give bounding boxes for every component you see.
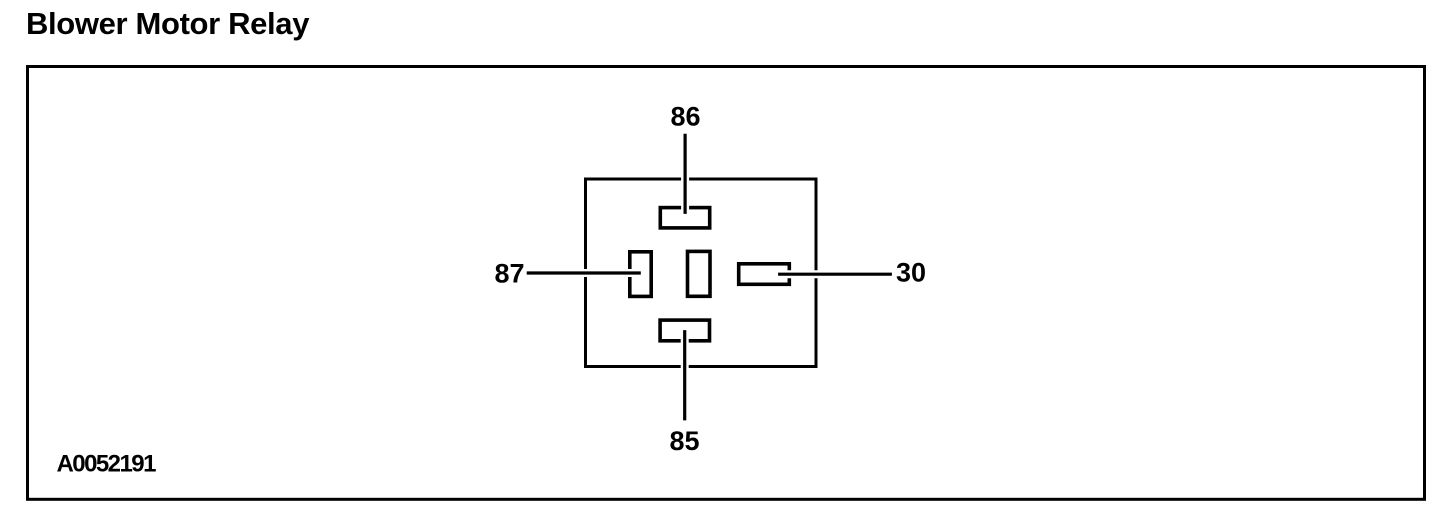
wire: leader from label 87 to left terminal [527, 269, 641, 277]
svg-text:85: 85 [669, 426, 699, 456]
wire: leader from bottom terminal to label 85 [681, 330, 689, 420]
wire: leader from label 86 to top terminal [681, 134, 689, 214]
relay connector body outline [586, 179, 817, 367]
svg-text:86: 86 [670, 101, 700, 131]
svg-text:A0052191: A0052191 [57, 450, 157, 477]
wire: leader from right terminal to label 30 [778, 270, 892, 278]
terminal 85 (bottom pin cavity) [660, 320, 709, 341]
terminal 30 (right pin cavity) [739, 264, 790, 285]
svg-text:30: 30 [896, 258, 926, 288]
svg-text:Blower Motor Relay: Blower Motor Relay [26, 6, 310, 41]
svg-text:87: 87 [494, 259, 524, 289]
terminal 87 (left pin cavity) [630, 252, 651, 297]
terminal 86 (top pin cavity) [660, 208, 709, 228]
center pin cavity (87a) [688, 251, 711, 296]
